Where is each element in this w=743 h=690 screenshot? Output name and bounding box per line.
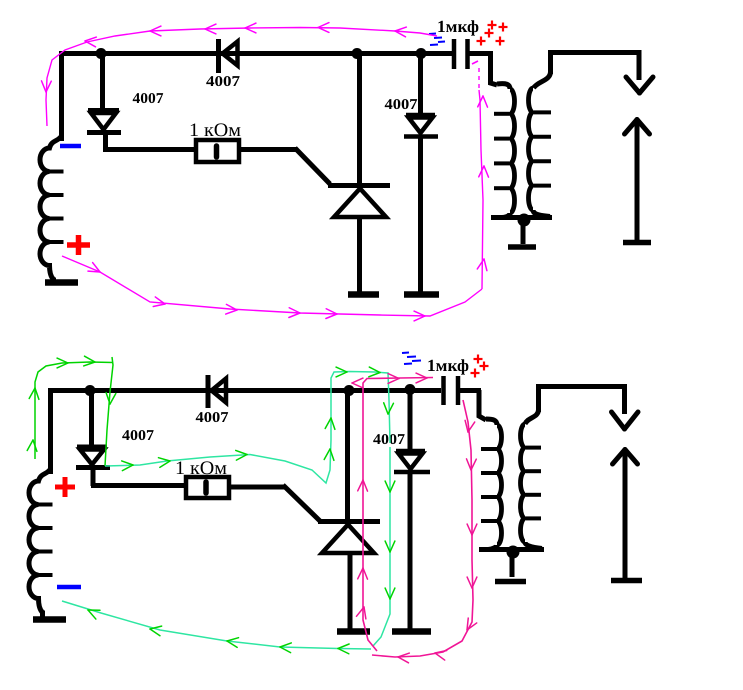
svg-text:4007: 4007: [122, 428, 155, 444]
svg-text:1 кОм: 1 кОм: [189, 120, 241, 141]
svg-text:4007: 4007: [206, 74, 241, 90]
svg-text:4007: 4007: [196, 410, 230, 426]
svg-text:4007: 4007: [385, 97, 419, 113]
svg-text:1 кОм: 1 кОм: [175, 458, 227, 479]
svg-text:4007: 4007: [133, 91, 165, 107]
svg-text:1мкф: 1мкф: [427, 356, 469, 375]
svg-text:1мкф: 1мкф: [437, 17, 479, 36]
